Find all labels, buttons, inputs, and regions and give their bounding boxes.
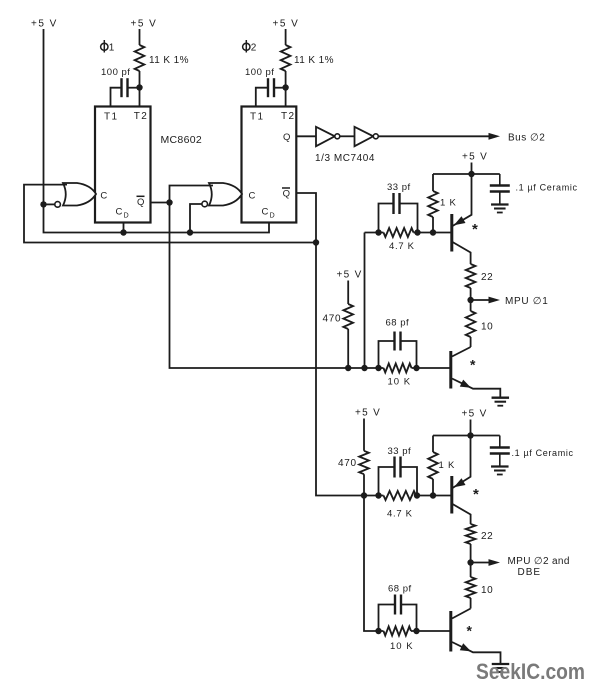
junction CD pin U1 on CD rail bbox=[120, 229, 126, 235]
wire lower rail right segment to Q4 base bbox=[411, 630, 450, 632]
transistor Q3 emitter lead bbox=[453, 436, 471, 489]
arrow Bus phi2 bbox=[489, 133, 501, 140]
svg-text:T2: T2 bbox=[281, 111, 295, 122]
svg-text:68 pf: 68 pf bbox=[386, 318, 410, 329]
wire +5V down to driver2 top rail bbox=[470, 420, 472, 436]
wire R7 to phi1 rail bbox=[347, 329, 349, 368]
wire C3 left lead and drop bbox=[379, 204, 394, 233]
wire C3 right lead and drop bbox=[400, 204, 418, 233]
junction driver1 +5V node bbox=[468, 171, 474, 177]
wire R12 to output node bbox=[470, 544, 472, 563]
svg-text:D: D bbox=[270, 210, 275, 219]
resistor R13 10 ohm (driver2 lower out) bbox=[466, 577, 476, 598]
svg-text:68 pf: 68 pf bbox=[388, 584, 412, 595]
svg-text:MPU ∅2 and: MPU ∅2 and bbox=[508, 556, 570, 567]
transistor Q1 emitter lead bbox=[453, 174, 472, 226]
svg-text:C: C bbox=[116, 207, 123, 218]
junction G2 lower input on CD rail bbox=[187, 229, 193, 235]
junction C3 left on base rail bbox=[375, 229, 381, 235]
junction MPU phi2 output node bbox=[467, 559, 473, 565]
wire Qbar U2 right and down to driver 2 input rail bbox=[296, 193, 383, 496]
ground for C8 bbox=[491, 465, 509, 467]
transistor Q3 emitter arrow (points to bar: PNP) bbox=[454, 478, 466, 487]
wire R5 to output node bbox=[470, 288, 472, 300]
junction R7 on phi1 rail bbox=[345, 365, 351, 371]
junction driver2 +5V node bbox=[467, 432, 473, 438]
svg-text:Bus ∅2: Bus ∅2 bbox=[508, 132, 545, 143]
svg-text:Q: Q bbox=[137, 197, 144, 208]
wire R13 to Q4 collector bbox=[470, 598, 472, 609]
wire phi1 rail right segment to Q2 base bbox=[412, 367, 450, 369]
svg-text:T1: T1 bbox=[250, 112, 264, 123]
wire C7 left lead and drop bbox=[379, 605, 396, 632]
svg-text:.1 µf Ceramic: .1 µf Ceramic bbox=[512, 448, 574, 458]
capacitor C1 100pf (phi1 timing) bbox=[120, 78, 122, 97]
svg-text:+5 V: +5 V bbox=[31, 19, 58, 30]
transistor Q4 collector lead bbox=[452, 609, 471, 619]
svg-text:1/3 MC7404: 1/3 MC7404 bbox=[315, 153, 375, 164]
svg-text:.1 µf Ceramic: .1 µf Ceramic bbox=[516, 183, 578, 193]
wire output stub to arrow (driver2) bbox=[471, 562, 489, 564]
wire 1K top lead bbox=[432, 174, 434, 191]
svg-text:*: * bbox=[472, 221, 478, 238]
junction MPU phi1 output node bbox=[467, 297, 473, 303]
junction C7 right on lower rail bbox=[413, 628, 419, 634]
wire driver2 base rail right segment bbox=[416, 495, 451, 497]
svg-text:+5 V: +5 V bbox=[462, 409, 488, 420]
junction R9 on driver2 base rail bbox=[430, 492, 436, 498]
svg-text:+5 V: +5 V bbox=[131, 19, 158, 30]
svg-text:DBE: DBE bbox=[518, 567, 542, 578]
resistor R1 11K 1% (phi1 timing) bbox=[135, 45, 145, 71]
ground for Q2 emitter bbox=[492, 397, 510, 399]
junction base-rail drop on phi1 rail bbox=[361, 365, 367, 371]
wire 1K bottom lead to base node (driver2) bbox=[432, 479, 434, 496]
wire R6 to Q2 collector bbox=[470, 337, 472, 347]
transistor Q3 collector lead bbox=[453, 504, 471, 524]
svg-text:100 pf: 100 pf bbox=[101, 67, 130, 78]
resistor R9 1K (driver2 base pullup) bbox=[428, 452, 438, 479]
wire C4 left lead and drop bbox=[379, 341, 395, 368]
wire driver1 base rail right segment bbox=[414, 232, 451, 234]
svg-text:10 K: 10 K bbox=[388, 377, 412, 388]
resistor R5 22 ohm (driver1 upper out) bbox=[466, 264, 476, 288]
svg-text:*: * bbox=[473, 486, 479, 503]
wire +5V left rail down to CD rail, across to CD pin of U2 bbox=[44, 29, 270, 233]
resistor R7 470 (phi1 rail pullup) bbox=[343, 304, 353, 329]
junction C4 right on phi1 rail bbox=[413, 365, 419, 371]
wire driver1 base rail left segment bbox=[365, 232, 384, 234]
wire CD pin U1 stub bbox=[123, 223, 125, 233]
gate G1 OR body (drives C of U1) bbox=[63, 183, 96, 206]
capacitor C5 .1uf ceramic (driver1 bypass) bbox=[499, 174, 501, 185]
wire Q of U2 to inverter A bbox=[296, 135, 316, 137]
junction T2 node U2 bbox=[282, 84, 288, 90]
wire inverter A to inverter B bbox=[340, 135, 355, 137]
ground for Q4 emitter bbox=[492, 663, 510, 665]
svg-text:10: 10 bbox=[481, 585, 493, 596]
wire output node to R6 bbox=[470, 300, 472, 311]
wire G1 lower input stub bbox=[44, 203, 55, 205]
svg-text:+5 V: +5 V bbox=[337, 270, 363, 281]
svg-text:33 pf: 33 pf bbox=[388, 446, 412, 457]
svg-text:SeekIC.com: SeekIC.com bbox=[476, 659, 585, 684]
wire +5V down to driver1 top rail bbox=[471, 163, 473, 175]
transistor Q4 emitter arrow (points out: NPN) bbox=[460, 643, 471, 651]
wire C6 left lead and drop bbox=[379, 467, 395, 496]
wire 1K bottom lead to base node bbox=[432, 217, 434, 233]
wire R1 to T2 junction bbox=[139, 71, 141, 88]
svg-text:*: * bbox=[470, 357, 476, 373]
resistor R8 10K (driver1 lower base) bbox=[384, 364, 412, 373]
svg-text:C: C bbox=[100, 191, 107, 202]
svg-text:MPU ∅1: MPU ∅1 bbox=[505, 296, 548, 307]
svg-text:*: * bbox=[467, 623, 473, 639]
wire C6 right lead and drop bbox=[401, 467, 418, 496]
arrow MPU phi2 and DBE bbox=[489, 559, 501, 566]
junction R10 on driver2 base rail bbox=[361, 492, 367, 498]
resistor R10 470 (driver2 rail pullup) bbox=[359, 451, 369, 474]
resistor R2 11K 1% (phi2 timing) bbox=[281, 45, 291, 71]
wire base rail left end down to phi1 rail bbox=[364, 233, 366, 369]
arrow MPU phi1 bbox=[489, 297, 501, 304]
wire +5V down to R7 bbox=[347, 281, 349, 305]
capacitor C4 68pf (driver1 speedup) bbox=[393, 332, 395, 351]
resistor R3 1K (driver1 base pullup) bbox=[428, 191, 438, 217]
wire G1 top input from left rail bbox=[24, 185, 316, 243]
resistor R6 10 ohm (driver1 lower out) bbox=[466, 311, 476, 337]
transistor Q2 emitter arrow (points out: NPN) bbox=[460, 380, 471, 388]
capacitor C3 33pf (driver1 speedup) bbox=[392, 193, 394, 214]
svg-text:MC8602: MC8602 bbox=[161, 134, 203, 146]
svg-text:C: C bbox=[249, 191, 256, 202]
transistor Q4 emitter lead bbox=[452, 642, 501, 664]
capacitor C2 100pf (phi2 timing) bbox=[267, 78, 269, 97]
transistor Q2 collector lead bbox=[452, 347, 471, 357]
junction Qbar U2 to crosscouple rail bbox=[313, 239, 319, 245]
wire C7 right lead and drop bbox=[401, 605, 417, 632]
junction C4 left on phi1 rail bbox=[375, 365, 381, 371]
resistor R12 22 ohm (driver2 upper out) bbox=[466, 524, 476, 544]
svg-text:22: 22 bbox=[481, 531, 493, 542]
wire +5V down to R1 bbox=[139, 29, 141, 45]
transistor Q1 emitter arrow (points to bar: PNP) bbox=[454, 216, 466, 225]
svg-text:22: 22 bbox=[481, 272, 493, 283]
wire C1 left lead down to T1 pin of U1 bbox=[111, 88, 122, 107]
svg-text:Q: Q bbox=[283, 189, 290, 200]
transistor Q2 emitter lead bbox=[452, 379, 500, 398]
svg-text:+5 V: +5 V bbox=[273, 19, 300, 30]
capacitor C8 .1uf ceramic (driver2 bypass) bbox=[499, 436, 501, 448]
node phi2 label bbox=[243, 43, 250, 50]
wire junction down to T2 pin of U1 bbox=[139, 88, 141, 107]
svg-text:10: 10 bbox=[481, 322, 493, 333]
ground for C5 bbox=[491, 203, 509, 205]
svg-text:470: 470 bbox=[323, 314, 342, 325]
wire 1K top lead (driver2) bbox=[432, 436, 434, 453]
wire C1 right lead to junction bbox=[128, 87, 140, 89]
svg-text:T2: T2 bbox=[134, 111, 148, 122]
wire +5V down to R10 bbox=[363, 419, 365, 451]
inverter A 1/3 MC7404 bbox=[316, 127, 335, 146]
wire inverter B to Bus phi2 arrow bbox=[378, 135, 489, 137]
wire output node to R13 bbox=[470, 563, 472, 578]
resistor R4 4.7K (driver1 base) bbox=[384, 228, 414, 237]
bubble G1 inverted input bbox=[55, 202, 61, 208]
transistor Q1 PNP bar bbox=[450, 214, 453, 252]
junction C7 left on lower rail bbox=[375, 628, 381, 634]
svg-text:D: D bbox=[124, 210, 129, 219]
svg-text:470: 470 bbox=[338, 458, 357, 469]
junction C3 right on base rail bbox=[414, 229, 420, 235]
svg-text:4.7 K: 4.7 K bbox=[387, 509, 413, 520]
bubble G2 inverted input bbox=[202, 201, 208, 207]
junction Qbar U1 node bbox=[166, 199, 172, 205]
resistor R14 10K (driver2 lower base) bbox=[384, 627, 412, 636]
svg-text:1: 1 bbox=[109, 43, 115, 54]
junction R3 on base rail bbox=[430, 229, 436, 235]
wire G2 top input from Qbar U1 node bbox=[170, 186, 214, 203]
svg-text:+5 V: +5 V bbox=[355, 408, 381, 419]
svg-text:1 K: 1 K bbox=[440, 198, 457, 209]
wire R10 to driver2 base rail bbox=[363, 474, 365, 495]
wire driver1 top rail bbox=[433, 173, 500, 175]
transistor Q2 NPN bar bbox=[449, 351, 452, 389]
wire C2 left lead down to T1 pin of U2 bbox=[256, 88, 268, 107]
wire +5V down to R2 bbox=[285, 29, 287, 45]
junction T2 node U1 bbox=[136, 84, 142, 90]
resistor R11 4.7K (driver2 base) bbox=[384, 491, 417, 500]
gate G2 OR body (drives C of U2) bbox=[209, 183, 242, 206]
svg-text:10 K: 10 K bbox=[390, 641, 414, 652]
svg-text:T1: T1 bbox=[104, 112, 118, 123]
transistor Q1 collector lead bbox=[453, 242, 471, 264]
monostable U1 MC8602 body bbox=[95, 107, 151, 223]
junction C6 right on base rail bbox=[414, 492, 420, 498]
wire output stub to arrow bbox=[471, 299, 489, 301]
wire junction down to T2 pin of U2 bbox=[285, 88, 287, 107]
inverter B 1/3 MC7404 bbox=[355, 127, 374, 146]
svg-text:2: 2 bbox=[251, 43, 257, 54]
capacitor C6 33pf (driver2 speedup) bbox=[393, 457, 395, 478]
junction C6 left on base rail bbox=[375, 492, 381, 498]
wire Qbar U1 node down to phi1 drive rail bbox=[170, 203, 384, 369]
wire G2 lower input stub and drop to CD rail bbox=[190, 204, 202, 233]
wire C4 right lead and drop bbox=[401, 341, 417, 368]
transistor Q4 NPN bar bbox=[449, 611, 452, 652]
svg-text:Q: Q bbox=[283, 132, 290, 143]
wire R2 to T2 junction bbox=[285, 71, 287, 88]
wire driver2 top rail bbox=[433, 435, 500, 437]
svg-text:+5 V: +5 V bbox=[462, 152, 488, 163]
svg-text:100 pf: 100 pf bbox=[245, 67, 274, 78]
svg-text:11 K 1%: 11 K 1% bbox=[149, 55, 189, 66]
capacitor C7 68pf (driver2 speedup) bbox=[394, 595, 396, 615]
wire R10 node down to phi2 lower rail bbox=[364, 496, 384, 632]
junction G1 lower input node on +5V rail bbox=[40, 201, 46, 207]
wire Qbar U1 to junction bbox=[151, 202, 170, 204]
transistor Q3 PNP bar bbox=[450, 476, 453, 514]
svg-text:4.7 K: 4.7 K bbox=[389, 241, 415, 252]
svg-text:1 K: 1 K bbox=[439, 460, 456, 471]
wire C2 right lead to junction bbox=[274, 87, 286, 89]
monostable U2 MC8602 body bbox=[242, 107, 297, 223]
svg-text:C: C bbox=[262, 207, 269, 218]
svg-text:33 pf: 33 pf bbox=[387, 182, 411, 193]
svg-text:11 K 1%: 11 K 1% bbox=[294, 55, 334, 66]
node phi1 label bbox=[101, 43, 108, 50]
